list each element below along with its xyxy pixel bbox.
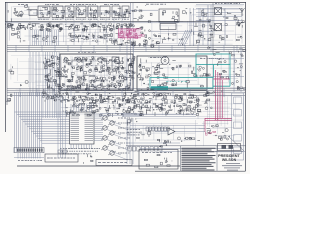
wire bbox=[193, 8, 195, 46]
xtal filter X1 bbox=[160, 24, 176, 30]
meter lamp network R32 bbox=[206, 125, 228, 134]
nb passive C80 bbox=[193, 101, 199, 109]
teal link vertical bbox=[195, 65, 197, 78]
wire bbox=[210, 5, 212, 45]
driver interstage Q14 bbox=[92, 33, 100, 42]
switching transistor array bbox=[101, 116, 128, 160]
mic connector label bbox=[47, 157, 75, 159]
mixer Q19 bbox=[162, 33, 176, 43]
selector diode D9 bbox=[44, 78, 59, 83]
tx stage caption bbox=[100, 18, 110, 20]
pin function labels bbox=[60, 148, 100, 150]
vco can U11 bbox=[161, 57, 169, 65]
wire bbox=[155, 131, 168, 133]
selector diode D10 bbox=[48, 82, 61, 88]
pll stage U7 bbox=[97, 57, 106, 64]
wire bbox=[129, 118, 131, 164]
changeover relay U1 bbox=[209, 26, 217, 31]
rail decoupling C55 bbox=[43, 92, 49, 97]
notes area top border bbox=[126, 145, 246, 147]
nb passive C72 bbox=[128, 102, 137, 111]
lowpass filter L3 bbox=[223, 10, 237, 20]
RX unit enclosure bbox=[137, 56, 207, 90]
nb network R47 bbox=[165, 110, 172, 116]
agc passive C68 bbox=[96, 107, 107, 116]
bus taps bbox=[16, 45, 237, 52]
nb network R44 bbox=[138, 111, 144, 115]
audio section wiring mesh bbox=[9, 24, 129, 44]
rail decoupling C58 bbox=[75, 92, 81, 100]
frame bottom border left bbox=[17, 165, 180, 167]
transistor label Q58 bbox=[118, 137, 130, 139]
nb passive C73 bbox=[136, 102, 144, 109]
if coupling C50 bbox=[129, 71, 135, 77]
decoupling network C18 bbox=[65, 24, 72, 29]
rear jack U15 bbox=[234, 97, 242, 104]
rx bottom row C51 bbox=[147, 79, 203, 89]
magenta trace bundle bbox=[216, 70, 221, 120]
wiring harness bus bbox=[15, 92, 42, 152]
decoupling network C17 bbox=[59, 24, 63, 30]
horizontal bus wire bbox=[7, 45, 245, 47]
pll internal wiring bbox=[65, 56, 131, 88]
frame top border bbox=[5, 2, 246, 4]
IC output wires bbox=[94, 114, 103, 141]
rear panel connector strip bbox=[232, 93, 244, 160]
mic transformer T1 bbox=[29, 10, 37, 16]
carrier osc part R15 bbox=[130, 34, 138, 38]
rx unit wiring mesh bbox=[140, 58, 203, 88]
IC top pin stubs bbox=[71, 104, 92, 112]
reg divider R20 bbox=[9, 66, 14, 74]
decoupling network C28 bbox=[125, 24, 132, 30]
noise blanker Q50 bbox=[168, 93, 178, 103]
connector base wire bbox=[14, 157, 44, 159]
wire bbox=[175, 131, 205, 133]
mixer section wiring mesh bbox=[151, 20, 188, 46]
rear jack U17 bbox=[234, 122, 242, 129]
noise blanker Q51 bbox=[178, 96, 183, 101]
driver choke L1 bbox=[134, 5, 146, 12]
pll passive R24 bbox=[82, 83, 90, 91]
pll passive R30 bbox=[126, 83, 131, 91]
output coil L7 bbox=[229, 49, 245, 56]
osc support part C38 bbox=[132, 41, 136, 47]
wire bbox=[126, 44, 128, 90]
zener D3 bbox=[6, 94, 12, 101]
ant terminal C7 bbox=[241, 20, 245, 28]
meter network R31 bbox=[219, 70, 229, 79]
final amp parts R11 bbox=[162, 11, 178, 22]
wire bbox=[196, 20, 242, 22]
wire bbox=[100, 115, 140, 117]
pll stage U3 bbox=[63, 58, 71, 65]
supply rail bbox=[5, 22, 210, 24]
wire bbox=[122, 116, 196, 118]
pink trace bbox=[118, 37, 141, 39]
agc passive C67 bbox=[87, 107, 96, 116]
agc stage Q41 bbox=[96, 99, 108, 107]
tx stage parts R8 bbox=[123, 9, 129, 17]
horizontal bus wire bbox=[7, 51, 245, 53]
rf transformer T3 bbox=[215, 24, 222, 31]
transistor label Q61 bbox=[118, 152, 129, 154]
numbered connector row 2 bbox=[128, 147, 162, 152]
pll stage Q28 bbox=[99, 65, 109, 73]
noise blanker caption bbox=[200, 58, 224, 60]
noise blanker Q52 bbox=[184, 94, 194, 104]
horizontal bus wire bbox=[7, 90, 245, 92]
osc input R17 bbox=[113, 39, 118, 45]
PLL synthesizer IC U13 bbox=[70, 112, 95, 144]
connector tails bbox=[18, 153, 40, 159]
decoupling network C9 bbox=[11, 24, 18, 31]
decoupling network C27 bbox=[121, 24, 128, 31]
RX unit caption bbox=[150, 57, 166, 59]
PLL unit caption bbox=[78, 51, 96, 53]
harness breakout wires bbox=[15, 112, 70, 143]
wire bbox=[207, 5, 209, 45]
wire bbox=[130, 9, 158, 11]
final matching C52 bbox=[233, 60, 243, 76]
frame bottom border right bbox=[135, 170, 246, 172]
bus interface R35 bbox=[62, 97, 70, 101]
horizontal bus wire bbox=[7, 94, 245, 96]
vertical feed wire bbox=[130, 3, 132, 90]
if transformer T4 bbox=[128, 56, 135, 66]
test point label bbox=[127, 129, 140, 131]
carrier osc part R13 bbox=[120, 34, 125, 39]
transistor label Q56 bbox=[118, 127, 130, 129]
tx stage parts R2 bbox=[53, 8, 64, 19]
nb network R43 bbox=[130, 108, 137, 115]
carrier osc part R16 bbox=[136, 34, 145, 38]
agc stage Q43 bbox=[114, 99, 124, 110]
tx stage box Q6 bbox=[100, 6, 110, 18]
volume network R53 bbox=[165, 140, 170, 146]
tx stage box Q1 bbox=[38, 6, 50, 18]
tx stage caption bbox=[65, 18, 74, 20]
agc stage Q40 bbox=[87, 98, 96, 108]
title small text bbox=[222, 165, 242, 167]
bus interface R37 bbox=[82, 97, 90, 104]
rx front end Q32 bbox=[139, 58, 154, 71]
agc passive C71 bbox=[123, 109, 130, 117]
wire bbox=[130, 125, 205, 127]
driver interstage Q11 bbox=[69, 33, 74, 41]
pll unit wiring mesh bbox=[62, 56, 127, 89]
frame right border bbox=[245, 2, 247, 171]
rear panel wiring mesh bbox=[207, 94, 244, 139]
supply rail branch bbox=[150, 30, 213, 32]
IC right pin rows bbox=[85, 114, 94, 141]
tx stage parts R1 bbox=[39, 7, 50, 17]
osc buffer Q18 bbox=[149, 34, 161, 45]
pll passive C45 bbox=[89, 75, 99, 83]
ext speaker jack U12 bbox=[232, 81, 246, 90]
rail decoupling C61 bbox=[108, 93, 114, 98]
wire bbox=[208, 76, 244, 78]
selector diode D8 bbox=[45, 74, 61, 79]
pll stage U6 bbox=[89, 56, 98, 64]
speaker jack U22 bbox=[84, 154, 94, 164]
tx stage parts R5 bbox=[90, 7, 97, 17]
tx stage box Q2 bbox=[52, 6, 63, 18]
pll stage Q31 bbox=[125, 66, 134, 74]
bias network R10 bbox=[11, 14, 22, 22]
bias network R12 bbox=[133, 25, 143, 30]
noise blanker Q48 bbox=[153, 92, 163, 100]
ceramic filter X3 bbox=[169, 61, 181, 70]
tx stage caption bbox=[122, 18, 129, 20]
magenta trace bundle bbox=[221, 80, 223, 118]
schematic notes text bbox=[182, 148, 216, 170]
rf meter network D2 bbox=[197, 34, 214, 44]
caption TR28 final bbox=[146, 3, 166, 5]
af driver Q62 bbox=[178, 137, 201, 142]
pll stage U4 bbox=[71, 57, 80, 65]
left wiring mesh bbox=[10, 55, 57, 90]
agc passive C66 bbox=[79, 108, 88, 115]
af preamp Q63 bbox=[137, 130, 151, 139]
selector diode D7 bbox=[50, 69, 61, 73]
tx stage caption bbox=[76, 18, 86, 20]
pll passive R23 bbox=[75, 83, 82, 89]
tx stage box Q5 bbox=[88, 6, 98, 18]
pll passive R25 bbox=[89, 84, 96, 90]
rail decoupling C62 bbox=[123, 92, 126, 99]
rail decoupling C59 bbox=[85, 93, 93, 99]
rear jack U16 bbox=[234, 110, 242, 117]
transistor Q9 bbox=[19, 11, 23, 15]
driver interstage Q15 bbox=[100, 34, 110, 42]
bus interface R42 bbox=[125, 96, 133, 101]
bus interface R40 bbox=[107, 96, 115, 103]
af section wiring mesh bbox=[126, 119, 205, 147]
tone network R52 bbox=[157, 139, 166, 147]
osc support part C36 bbox=[118, 40, 124, 46]
driver interstage Q13 bbox=[83, 34, 90, 40]
rear jack U18 bbox=[234, 135, 242, 142]
tx chain link wire bbox=[33, 12, 130, 14]
interstage parts C3 bbox=[129, 11, 137, 25]
pink trace bbox=[118, 29, 120, 38]
wire bbox=[133, 44, 135, 90]
microphone connector U20 bbox=[45, 154, 78, 162]
op-amp U14 bbox=[168, 128, 175, 135]
nb passive C77 bbox=[169, 103, 177, 109]
bus interface R36 bbox=[72, 96, 76, 101]
IC bottom pin stubs bbox=[71, 144, 92, 149]
driver interstage Q16 bbox=[110, 34, 120, 44]
pll stage U8 bbox=[106, 59, 118, 67]
horizontal bus wire bbox=[7, 49, 245, 51]
rail decoupling C63 bbox=[131, 92, 139, 98]
carrier osc part C35 bbox=[133, 29, 137, 36]
mixer load R18 bbox=[153, 40, 166, 44]
wire bbox=[196, 8, 242, 10]
nb passive C75 bbox=[152, 103, 162, 109]
agc passive C64 bbox=[63, 108, 70, 117]
output section wiring mesh bbox=[209, 47, 243, 90]
pll passive R22 bbox=[67, 85, 76, 89]
noise blanker Q45 bbox=[130, 94, 137, 103]
meter section wiring mesh bbox=[197, 95, 230, 129]
caption audio amp bbox=[45, 3, 59, 5]
tx stage box Q3 bbox=[65, 6, 74, 18]
agc passive C70 bbox=[115, 108, 123, 115]
alc network D1 bbox=[33, 35, 45, 40]
decoupling network C12 bbox=[29, 23, 36, 30]
s-meter parts R51 bbox=[204, 90, 223, 96]
bus junction taps bbox=[20, 88, 224, 97]
rail decoupling C57 bbox=[62, 92, 68, 99]
pll passive R27 bbox=[103, 84, 112, 90]
wire bbox=[122, 114, 196, 116]
antenna section wiring mesh bbox=[188, 5, 243, 45]
teal link horizontal bbox=[213, 85, 230, 87]
decoupling network C20 bbox=[77, 24, 85, 31]
highlight background pink oscillator area bbox=[118, 29, 141, 39]
rail decoupling C56 bbox=[56, 93, 63, 97]
interstage vertical wires bbox=[66, 20, 122, 45]
nb network R49 bbox=[184, 109, 191, 116]
agc stage Q42 bbox=[107, 98, 114, 109]
transistor label Q54 bbox=[118, 117, 130, 119]
driver network C2 bbox=[137, 13, 152, 22]
bus interface R34 bbox=[53, 95, 60, 101]
selector diode D11 bbox=[44, 87, 62, 92]
osc support part C39 bbox=[139, 40, 147, 47]
tx stage box Q8 bbox=[122, 6, 129, 18]
center harness wires bbox=[58, 96, 65, 158]
osc support part C37 bbox=[125, 41, 134, 45]
carrier osc part C33 bbox=[123, 29, 130, 35]
horizontal bus wire bbox=[7, 92, 245, 94]
oscillator can Q22 bbox=[77, 58, 81, 62]
agc section wiring mesh bbox=[48, 92, 191, 116]
swr bridge R19 bbox=[218, 36, 227, 43]
reference crystal X2 bbox=[112, 57, 119, 70]
fold diagonal mark bbox=[228, 136, 244, 151]
relay box U21 bbox=[58, 150, 67, 153]
wire bbox=[196, 16, 242, 18]
nb passive C76 bbox=[161, 102, 168, 108]
tx stage caption bbox=[38, 18, 50, 20]
wire bbox=[233, 46, 235, 92]
wire bbox=[208, 58, 244, 60]
numbered connector row bbox=[146, 127, 169, 131]
vertical feed wire bbox=[132, 3, 134, 44]
agc stage Q39 bbox=[78, 99, 88, 106]
driver wiring mesh bbox=[64, 31, 118, 43]
bus interface R39 bbox=[100, 97, 109, 103]
pll passive C46 bbox=[99, 77, 107, 82]
pll passive C49 bbox=[123, 76, 134, 81]
decoupling network C16 bbox=[53, 24, 61, 31]
selector diode D4 bbox=[45, 56, 60, 62]
rx mixer Q35 bbox=[154, 70, 167, 78]
pll stage Q24 bbox=[61, 66, 68, 73]
caption modulator bbox=[70, 3, 96, 5]
title area divider bbox=[216, 146, 218, 171]
tx chain wiring mesh bbox=[10, 7, 127, 20]
inset caption bbox=[142, 152, 172, 154]
pll stage U9 bbox=[116, 57, 124, 64]
paper background bbox=[0, 0, 250, 174]
nb passive C79 bbox=[185, 102, 191, 112]
PLL unit enclosure bbox=[60, 54, 133, 90]
decoupling network C24 bbox=[102, 25, 108, 32]
bus interface R38 bbox=[91, 97, 99, 103]
vertical wiring field bbox=[30, 30, 59, 46]
decoupling network C14 bbox=[41, 24, 50, 31]
coupling C4 bbox=[182, 9, 191, 15]
rf transformer T2 bbox=[215, 8, 222, 15]
bus interface R33 bbox=[45, 96, 55, 102]
wire bbox=[126, 118, 128, 164]
wire bbox=[189, 8, 191, 46]
power connector label bbox=[98, 162, 127, 164]
noise blanker Q46 bbox=[137, 93, 144, 102]
pll passive C43 bbox=[71, 75, 80, 83]
agc passive C69 bbox=[106, 108, 113, 117]
pll stage Q27 bbox=[89, 66, 98, 73]
agc stage Q37 bbox=[61, 99, 70, 107]
pll passive C47 bbox=[109, 76, 116, 82]
decoupling network C11 bbox=[24, 24, 30, 30]
tx stage caption bbox=[112, 18, 119, 20]
magenta trace bend bbox=[205, 118, 232, 132]
channel selector bus bbox=[43, 52, 59, 118]
rf amp Q20 bbox=[179, 37, 187, 45]
rx if amp Q33 bbox=[138, 73, 155, 86]
bottom rail bbox=[160, 151, 245, 153]
pll stage Q25 bbox=[71, 66, 79, 75]
audio coupling C29 bbox=[11, 31, 19, 38]
tx stage caption bbox=[88, 18, 98, 20]
teal link vertical bbox=[213, 65, 215, 78]
tone cap C30 bbox=[20, 38, 25, 42]
osc output Q17 bbox=[141, 30, 151, 38]
supply rail bbox=[5, 20, 210, 22]
selector wiring mesh bbox=[31, 55, 58, 88]
agc passive C65 bbox=[70, 109, 79, 115]
wire bbox=[224, 8, 226, 45]
harness connector outline bbox=[14, 148, 44, 153]
rf choke L5 bbox=[199, 30, 204, 37]
tx stage caption bbox=[52, 18, 63, 20]
tx stage parts R6 bbox=[101, 11, 109, 16]
nb amp Q36 bbox=[218, 59, 226, 66]
carrier osc part C34 bbox=[129, 29, 134, 35]
revision stamp bbox=[222, 145, 234, 149]
oscillator can Q23 bbox=[98, 58, 102, 62]
title text PRESIDENT bbox=[218, 154, 240, 158]
pll stage U5 bbox=[81, 58, 90, 66]
decoupling network C25 bbox=[108, 23, 115, 31]
pll passive R21 bbox=[61, 83, 69, 90]
wire bbox=[100, 113, 140, 115]
title separator bbox=[215, 151, 243, 153]
transistor label Q59 bbox=[118, 142, 130, 144]
svg-text:WILSON: WILSON bbox=[222, 158, 237, 162]
caption antenna circuit bbox=[215, 3, 240, 5]
pll stage U10 bbox=[127, 58, 135, 66]
connector terminals bbox=[17, 149, 43, 152]
selector diode D5 bbox=[44, 61, 60, 66]
rear jack U19 bbox=[234, 147, 242, 154]
